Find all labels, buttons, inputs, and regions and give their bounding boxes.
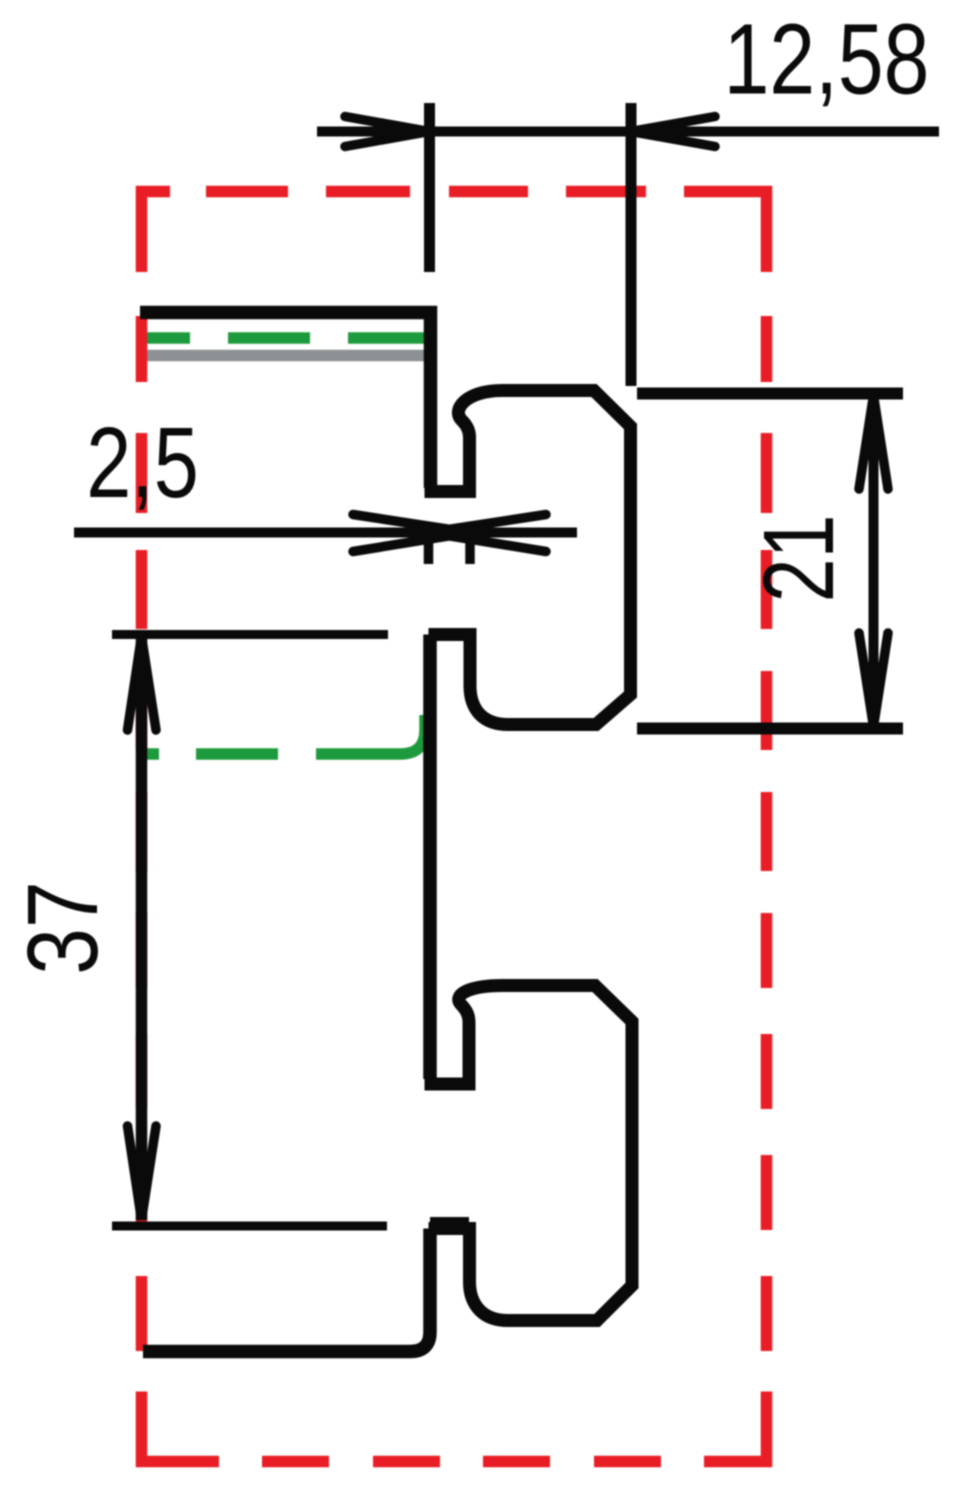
svg-text:2,5: 2,5: [86, 408, 199, 519]
svg-text:21: 21: [743, 515, 855, 603]
svg-text:12,58: 12,58: [724, 4, 930, 115]
svg-text:37: 37: [6, 881, 119, 974]
